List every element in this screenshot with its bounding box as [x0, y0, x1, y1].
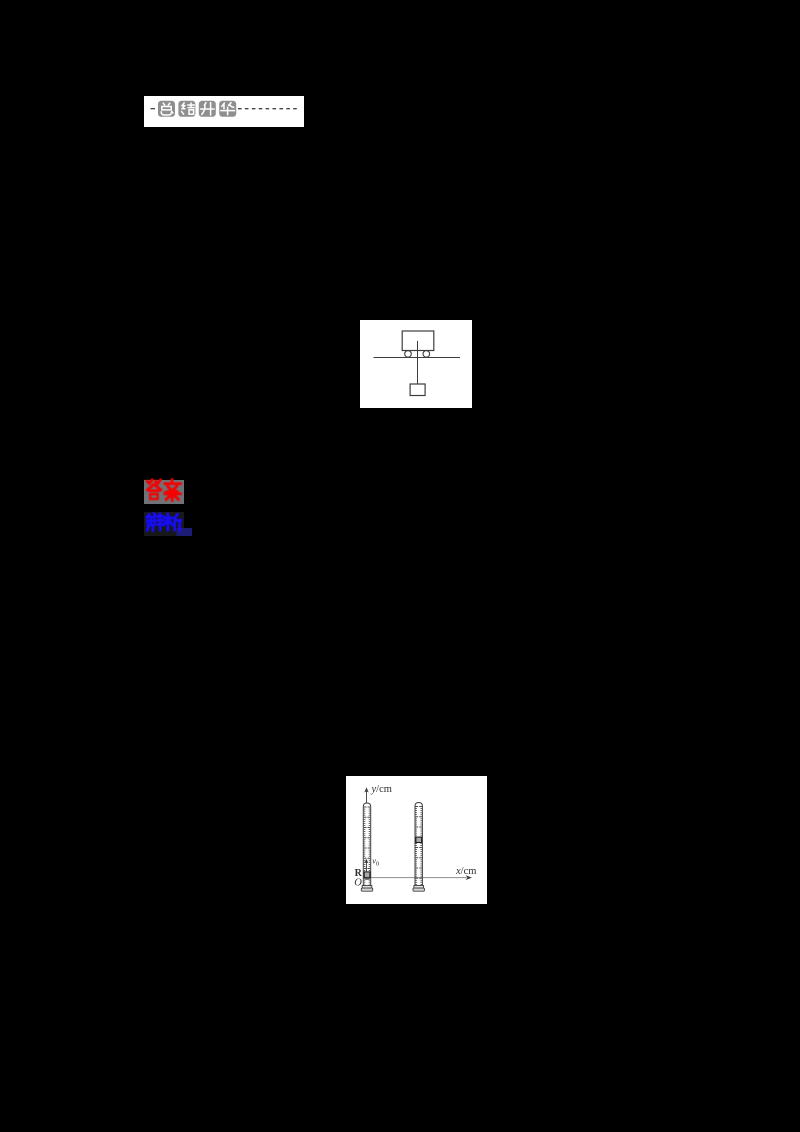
partially covered navy swatch: [177, 528, 193, 536]
y axis: [366, 791, 368, 803]
left tube base: [361, 886, 372, 892]
hanging block: [410, 384, 425, 396]
x axis arrowhead: [466, 875, 472, 880]
ball in right tube: [416, 837, 422, 842]
dark patch under ball R: [365, 878, 370, 880]
left wheel: [405, 351, 412, 358]
y axis arrowhead: [364, 787, 368, 792]
badge panel 总结升华: [144, 96, 304, 127]
ball R in left tube: [364, 872, 370, 878]
svg-text:y/cm: y/cm: [371, 784, 392, 795]
cart body: [402, 331, 434, 351]
table line: [374, 357, 461, 359]
x axis: [371, 877, 467, 879]
char 解: [147, 513, 157, 517]
left tube ticks: [364, 807, 370, 885]
label 答案 (red on gray): [144, 478, 194, 505]
right tube body: [415, 803, 422, 886]
char 答: [147, 480, 160, 484]
left tube body: [363, 803, 370, 886]
leading dash: [151, 108, 156, 110]
label 解析 (blue on dark): [144, 510, 196, 538]
v0 vector arrow: [365, 862, 367, 871]
right wheel: [423, 351, 430, 358]
tile 总: [158, 101, 175, 117]
char 案: [165, 480, 181, 493]
svg-text:x/cm: x/cm: [455, 866, 476, 877]
figure: two measuring tubes on axes: [346, 776, 487, 904]
right tube base: [413, 886, 424, 892]
tile 升: [199, 101, 216, 117]
tile 华: [219, 101, 236, 117]
string: [417, 341, 419, 384]
tile 结: [178, 101, 195, 117]
figure: cart with hanging block: [360, 320, 472, 408]
trailing dashed rule: [238, 108, 300, 110]
right tube ticks: [416, 807, 422, 885]
char 析: [164, 514, 172, 531]
svg-text:O: O: [354, 877, 362, 888]
